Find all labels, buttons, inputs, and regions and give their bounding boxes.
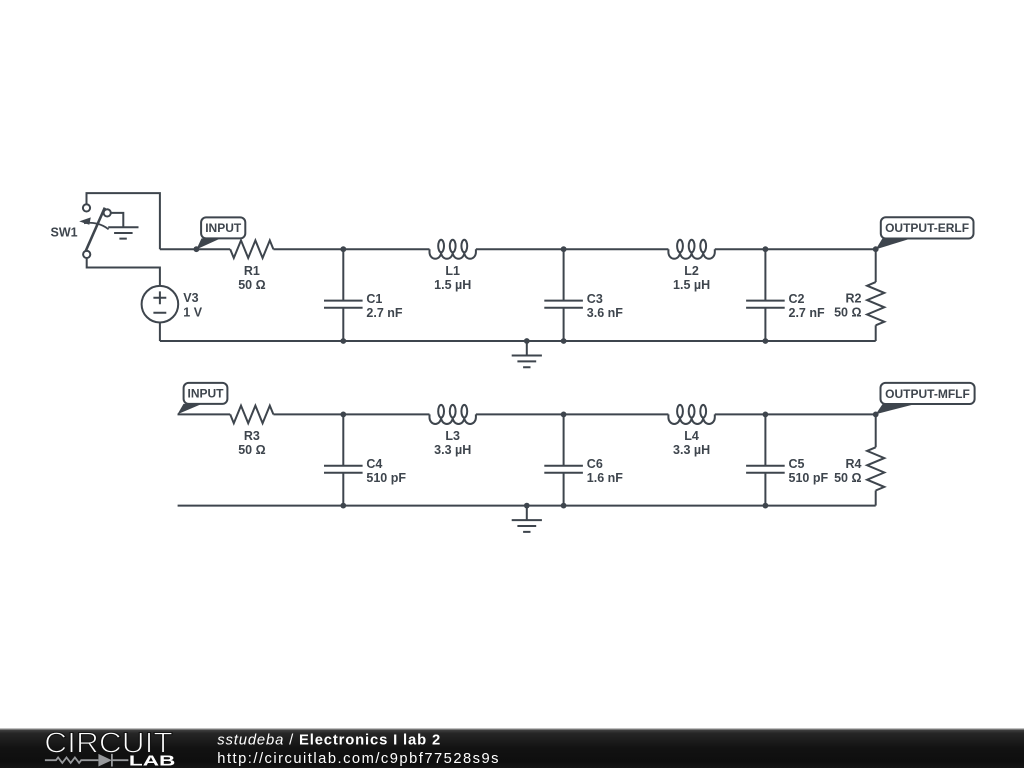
- svg-text:50 Ω: 50 Ω: [238, 278, 265, 292]
- svg-text:2.7 nF: 2.7 nF: [789, 306, 825, 320]
- svg-text:C3: C3: [587, 292, 603, 306]
- svg-text:510 pF: 510 pF: [366, 471, 406, 485]
- svg-text:OUTPUT-ERLF: OUTPUT-ERLF: [885, 221, 969, 235]
- svg-text:L3: L3: [445, 429, 460, 443]
- svg-text:3.3 µH: 3.3 µH: [673, 443, 710, 457]
- svg-text:OUTPUT-MFLF: OUTPUT-MFLF: [885, 387, 970, 401]
- svg-text:3.3 µH: 3.3 µH: [434, 443, 471, 457]
- svg-text:50 Ω: 50 Ω: [238, 443, 265, 457]
- svg-text:http://circuitlab.com/c9pbf775: http://circuitlab.com/c9pbf77528s9s: [217, 751, 500, 767]
- svg-text:L4: L4: [684, 429, 699, 443]
- svg-text:R4: R4: [846, 457, 862, 471]
- svg-text:1.5 µH: 1.5 µH: [673, 278, 710, 292]
- svg-text:1.6 nF: 1.6 nF: [587, 471, 623, 485]
- svg-text:R3: R3: [244, 429, 260, 443]
- svg-text:L2: L2: [684, 264, 699, 278]
- svg-text:1.5 µH: 1.5 µH: [434, 278, 471, 292]
- svg-text:50 Ω: 50 Ω: [834, 471, 861, 485]
- svg-text:3.6 nF: 3.6 nF: [587, 306, 623, 320]
- svg-text:C6: C6: [587, 457, 603, 471]
- svg-text:R1: R1: [244, 264, 260, 278]
- svg-text:R2: R2: [846, 291, 862, 305]
- svg-text:C2: C2: [789, 292, 805, 306]
- svg-text:sstudeba / Electronics I lab 2: sstudeba / Electronics I lab 2: [217, 733, 441, 749]
- svg-text:C1: C1: [366, 292, 382, 306]
- svg-text:INPUT: INPUT: [205, 221, 242, 235]
- svg-text:C4: C4: [366, 457, 382, 471]
- svg-text:C5: C5: [789, 457, 805, 471]
- svg-text:V3: V3: [183, 291, 198, 305]
- svg-text:LAB: LAB: [129, 754, 176, 768]
- svg-text:SW1: SW1: [51, 225, 78, 239]
- svg-text:50 Ω: 50 Ω: [834, 305, 861, 319]
- svg-text:510 pF: 510 pF: [789, 471, 829, 485]
- svg-text:INPUT: INPUT: [188, 387, 225, 401]
- svg-text:L1: L1: [445, 264, 460, 278]
- svg-text:2.7 nF: 2.7 nF: [366, 306, 402, 320]
- svg-text:1 V: 1 V: [183, 305, 202, 319]
